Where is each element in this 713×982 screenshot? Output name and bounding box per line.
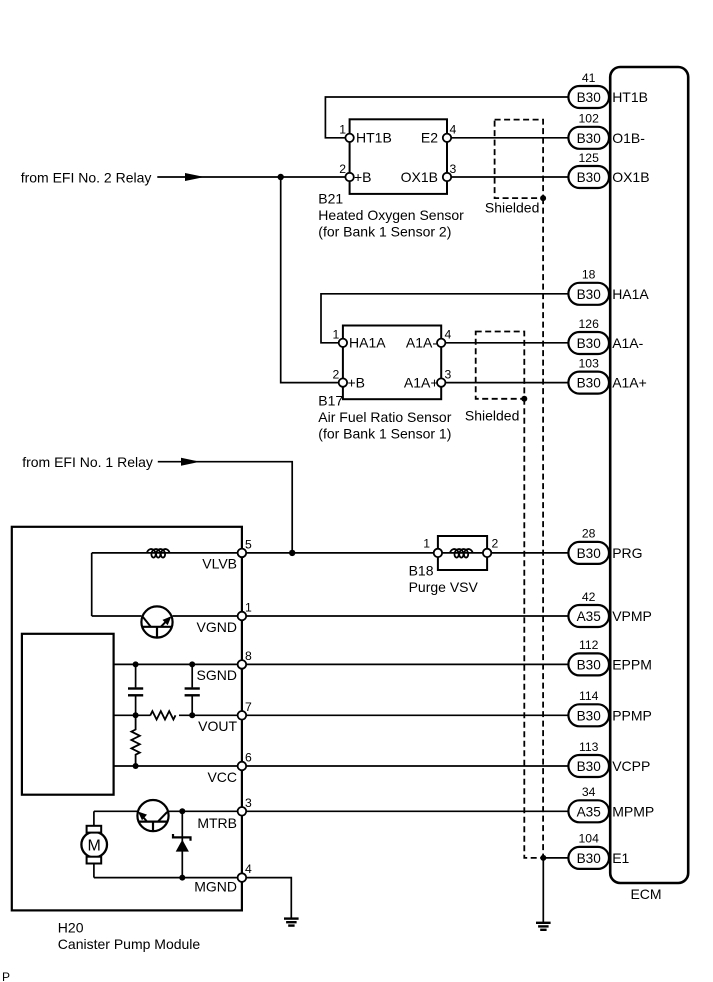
wire HT1B from B21 pin1 to ECM [325, 97, 568, 138]
svg-text:E1: E1 [612, 850, 629, 866]
ECM oval EPPM [568, 638, 651, 675]
ECM oval PPMP [568, 689, 651, 726]
svg-text:MPMP: MPMP [612, 803, 654, 819]
svg-text:H20: H20 [58, 919, 84, 935]
ECM oval A1A+ [568, 356, 646, 393]
svg-text:41: 41 [582, 71, 596, 85]
pin circle B21-4 [443, 134, 451, 142]
capacitor C1 [128, 664, 143, 715]
svg-text:Shielded: Shielded [485, 200, 540, 216]
wire MTRB to ECM MPMP [168, 810, 569, 812]
svg-text:28: 28 [582, 527, 596, 541]
module pin circle 4 [238, 873, 247, 882]
sensor B21 box [350, 119, 447, 194]
svg-text:2: 2 [333, 367, 340, 381]
svg-text:+B: +B [348, 375, 366, 391]
svg-text:B30: B30 [577, 546, 602, 561]
svg-text:2: 2 [492, 537, 499, 551]
wire VLVB to B18 [242, 552, 438, 554]
svg-text:(for Bank 1 Sensor 1): (for Bank 1 Sensor 1) [318, 426, 451, 442]
svg-text:B30: B30 [577, 170, 602, 185]
valve B18 box [438, 536, 487, 570]
node VCC-R2 [133, 763, 139, 769]
wire MGND row [94, 878, 291, 919]
svg-text:B18: B18 [409, 563, 434, 579]
svg-text:B30: B30 [577, 90, 602, 105]
resistor R1 horizontal [150, 711, 175, 719]
svg-text:B30: B30 [577, 759, 602, 774]
svg-text:HT1B: HT1B [356, 130, 392, 146]
wire shield drain B17 (dashed) [524, 399, 543, 858]
svg-text:PPMP: PPMP [612, 707, 652, 723]
wire from EFI No. 2 Relay to B21 +B [157, 176, 349, 178]
svg-text:HA1A: HA1A [349, 335, 386, 351]
module pin circle 3 [238, 807, 247, 816]
svg-text:SGND: SGND [197, 667, 237, 683]
sensor B17 box [343, 326, 441, 400]
svg-text:A1A-: A1A- [406, 335, 437, 351]
svg-text:B30: B30 [577, 336, 602, 351]
svg-text:A35: A35 [577, 804, 601, 819]
pin circle B17-1 [339, 339, 347, 347]
wire B18 to ECM PRG [487, 552, 568, 554]
ECM oval O1B- [568, 112, 645, 149]
node VOUT-C2 [189, 712, 195, 718]
svg-text:6: 6 [245, 751, 252, 765]
ground symbol MGND [284, 919, 299, 926]
wire from EFI No. 1 Relay [158, 462, 292, 553]
svg-text:8: 8 [245, 649, 252, 663]
svg-text:VGND: VGND [197, 619, 237, 635]
svg-text:VOUT: VOUT [198, 718, 237, 734]
svg-text:B17: B17 [318, 393, 343, 409]
ECM oval VPMP [568, 590, 651, 627]
wire MTRB row left [94, 810, 138, 812]
svg-text:103: 103 [579, 356, 600, 370]
node E1 shield junction [540, 855, 546, 861]
svg-text:A1A-: A1A- [612, 335, 643, 351]
shield box B17 [476, 332, 525, 399]
inner control block box [22, 634, 114, 795]
inductor coil L in module [147, 549, 170, 558]
pin circle B21-1 [345, 134, 353, 142]
ECM oval MPMP [568, 785, 654, 822]
svg-text:A1A+: A1A+ [612, 375, 647, 391]
ECM oval HT1B [568, 71, 648, 108]
pin circle B17-3 [437, 378, 445, 386]
svg-text:OX1B: OX1B [612, 169, 649, 185]
pin circle B18-2 [483, 549, 491, 557]
wire shield drain B21 (dashed) [542, 198, 544, 858]
node VOUT-C1 [133, 712, 139, 718]
zener diode D1 [173, 811, 191, 877]
svg-text:A35: A35 [577, 609, 601, 624]
wire VGND to ECM VPMP [173, 615, 569, 617]
svg-text:114: 114 [579, 689, 599, 703]
inductor coil B18 [450, 549, 473, 558]
svg-text:B30: B30 [577, 657, 602, 672]
wire OX1B from B21 pin3 to ECM [447, 176, 568, 178]
wire +B drop to B17 [281, 177, 343, 383]
capacitor C2 [185, 664, 200, 715]
svg-text:112: 112 [579, 638, 599, 652]
node SGND-C2 [189, 661, 195, 667]
wire A1A- from B17 pin4 to ECM [441, 342, 568, 344]
svg-text:VPMP: VPMP [612, 608, 652, 624]
svg-text:3: 3 [245, 796, 252, 810]
ECM oval VCPP [568, 740, 650, 777]
wire through B18 [438, 552, 487, 554]
ECM oval PRG [568, 527, 642, 564]
svg-text:34: 34 [582, 785, 596, 799]
svg-text:126: 126 [579, 317, 600, 331]
ECM oval A1A- [568, 317, 643, 354]
svg-text:O1B-: O1B- [612, 130, 645, 146]
pin circle B21-2 [345, 173, 353, 181]
arrowhead EFI No. 2 Relay [185, 173, 205, 181]
svg-text:Heated Oxygen Sensor: Heated Oxygen Sensor [318, 207, 464, 223]
svg-text:VCPP: VCPP [612, 758, 650, 774]
svg-text:M: M [88, 837, 101, 854]
svg-text:MTRB: MTRB [197, 815, 237, 831]
svg-text:Canister Pump Module: Canister Pump Module [58, 936, 201, 952]
svg-text:(for Bank 1 Sensor 2): (for Bank 1 Sensor 2) [318, 224, 451, 240]
svg-text:Shielded: Shielded [465, 408, 520, 424]
svg-text:E2: E2 [421, 130, 438, 146]
module pin circle 1 [238, 612, 247, 621]
ground symbol E1 [536, 923, 551, 930]
svg-text:104: 104 [579, 832, 600, 846]
svg-text:A1A+: A1A+ [404, 375, 439, 391]
svg-text:2: 2 [339, 162, 346, 176]
module pin circle 8 [238, 660, 247, 669]
svg-text:VCC: VCC [207, 769, 237, 785]
svg-text:VLVB: VLVB [202, 556, 237, 572]
svg-text:Air Fuel Ratio Sensor: Air Fuel Ratio Sensor [318, 409, 451, 425]
wire VLVB inner loop top [92, 552, 242, 554]
transistor Q1 (valve driver) [141, 606, 172, 637]
svg-text:B30: B30 [577, 287, 602, 302]
ECM oval E1 [568, 832, 629, 869]
svg-text:B30: B30 [577, 708, 602, 723]
svg-text:EPPM: EPPM [612, 656, 652, 672]
wire SGND row [114, 663, 569, 665]
svg-text:from EFI No. 1 Relay: from EFI No. 1 Relay [22, 454, 153, 470]
svg-text:Purge VSV: Purge VSV [409, 579, 479, 595]
svg-text:B30: B30 [577, 376, 602, 391]
transistor Q2 (motor driver) [137, 800, 168, 831]
wire HA1A from B17 pin1 to ECM [321, 294, 568, 343]
resistor R2 vertical [131, 715, 139, 766]
wire E1 stub [543, 857, 568, 859]
canister pump module H20 box [12, 527, 242, 911]
svg-text:HA1A: HA1A [612, 286, 649, 302]
module pin circle 7 [238, 711, 247, 720]
wire VGND row left [92, 615, 142, 617]
pin circle B18-1 [434, 549, 442, 557]
wire E1 ground drop [542, 858, 544, 923]
svg-text:113: 113 [579, 740, 599, 754]
svg-text:1: 1 [333, 328, 340, 342]
svg-text:3: 3 [445, 367, 452, 381]
svg-text:P: P [2, 970, 10, 982]
svg-text:125: 125 [579, 151, 600, 165]
node shield B21 [540, 195, 546, 201]
node MTRB-D1 [179, 808, 185, 814]
node SGND-C1 [133, 661, 139, 667]
node +B junction [278, 174, 284, 180]
ECM oval HA1A [568, 268, 649, 305]
wire inner loop left vertical [91, 553, 93, 616]
svg-text:7: 7 [245, 700, 252, 714]
shield box B21 [495, 120, 543, 199]
svg-text:from EFI No. 2 Relay: from EFI No. 2 Relay [21, 169, 152, 185]
svg-text:B30: B30 [577, 851, 602, 866]
svg-text:ECM: ECM [630, 886, 661, 902]
ECM oval OX1B [568, 151, 649, 188]
svg-text:MGND: MGND [194, 879, 237, 895]
svg-text:PRG: PRG [612, 545, 642, 561]
wire VOUT row [114, 714, 151, 716]
svg-text:B30: B30 [577, 131, 602, 146]
pin circle B17-2 [339, 378, 347, 386]
module pin circle 6 [238, 762, 247, 771]
pin circle B17-4 [437, 339, 445, 347]
svg-text:18: 18 [582, 268, 596, 282]
motor M [81, 811, 107, 877]
module pin circle 5 [238, 549, 247, 558]
svg-text:42: 42 [582, 590, 596, 604]
svg-text:HT1B: HT1B [612, 89, 648, 105]
svg-text:OX1B: OX1B [401, 169, 438, 185]
wire E2 from B21 pin4 to ECM O1B- [447, 137, 568, 139]
node MGND-D1 [179, 875, 185, 881]
svg-text:B21: B21 [318, 191, 343, 207]
pin circle B21-3 [443, 173, 451, 181]
wire VCC row [114, 765, 569, 767]
svg-text:1: 1 [245, 601, 252, 615]
node shield B17 [521, 396, 527, 402]
svg-text:4: 4 [245, 862, 252, 876]
svg-text:+B: +B [354, 169, 372, 185]
arrowhead EFI No. 1 Relay [181, 458, 200, 466]
node VLVB junction [289, 550, 295, 556]
svg-text:1: 1 [423, 537, 430, 551]
svg-text:1: 1 [339, 123, 346, 137]
svg-text:102: 102 [579, 112, 600, 126]
wire A1A+ from B17 pin3 to ECM [441, 382, 568, 384]
svg-text:5: 5 [245, 537, 252, 551]
ECM connector body [610, 67, 688, 883]
svg-text:4: 4 [445, 328, 452, 342]
